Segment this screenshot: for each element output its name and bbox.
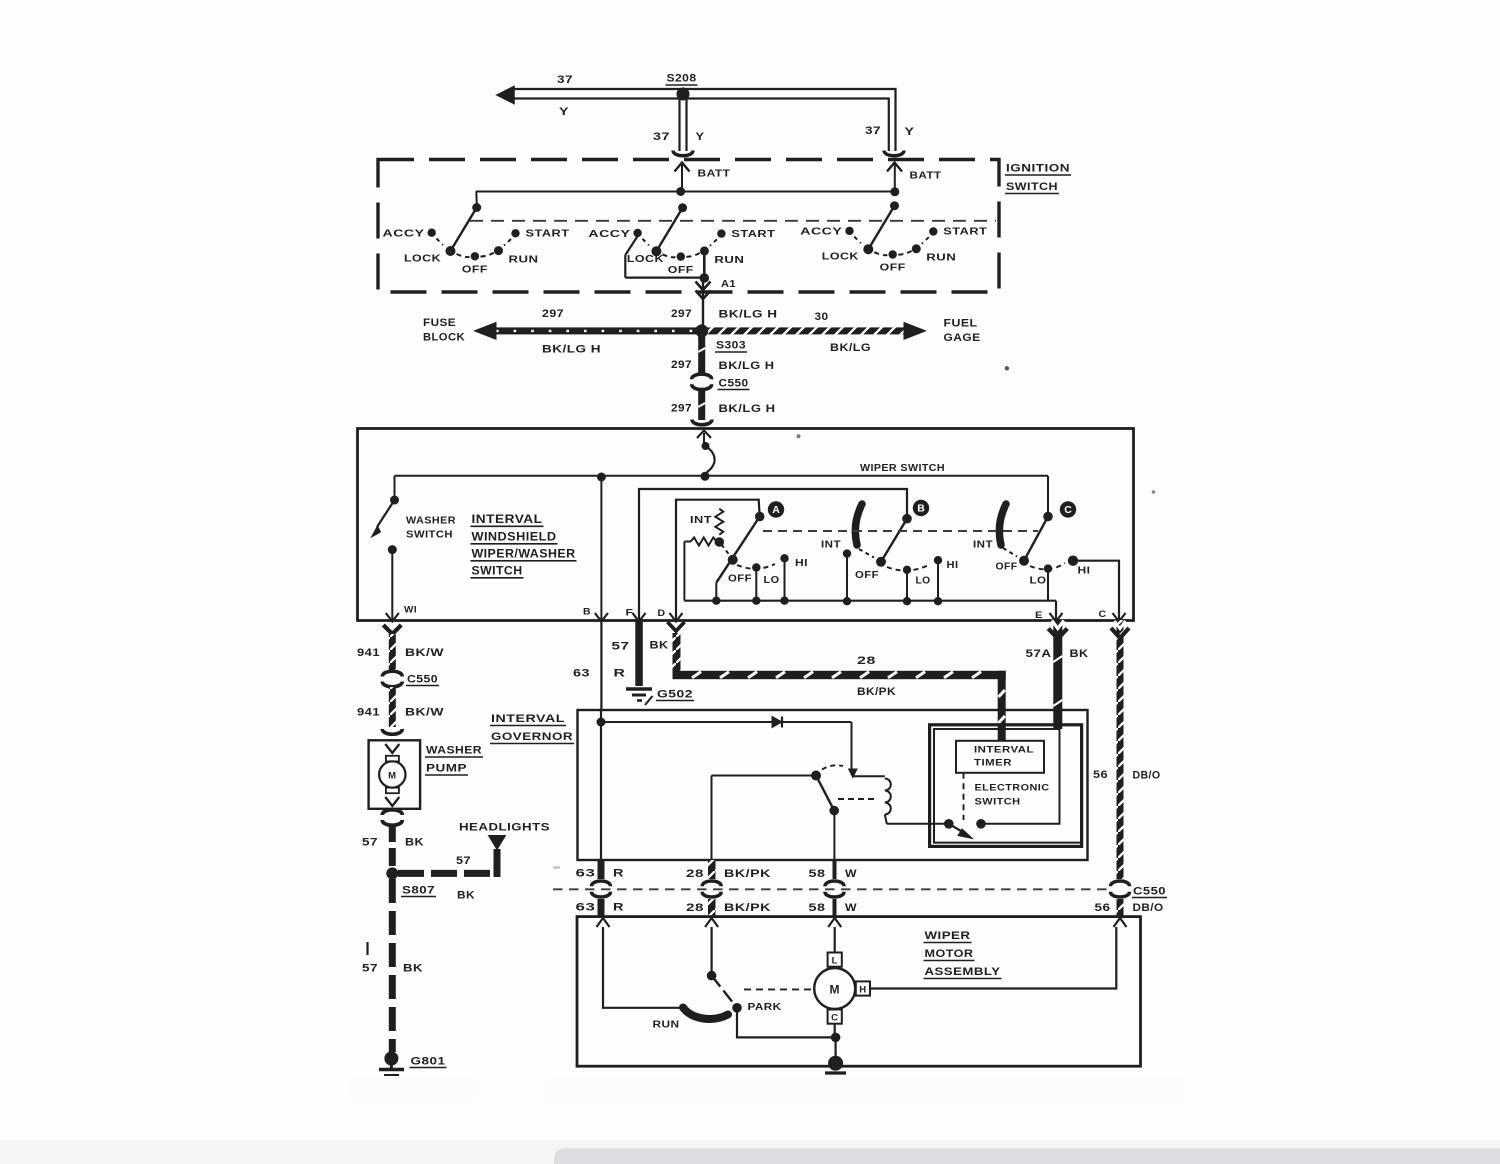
svg-text:RUN: RUN — [714, 254, 744, 266]
label terminal D — [658, 608, 666, 619]
terminal arrow out of washer pump — [385, 797, 399, 806]
contact HI (pole B) — [934, 556, 942, 601]
wire 58 to motor L — [834, 927, 836, 953]
label 28 (D run) — [857, 655, 876, 667]
label S807 — [401, 885, 436, 897]
harness dashed line C550 — [553, 888, 1108, 890]
svg-text:INT: INT — [690, 515, 712, 526]
label 297 (at S303) — [671, 308, 692, 320]
speck — [797, 434, 801, 438]
svg-text:941: 941 — [357, 647, 380, 659]
svg-text:S303: S303 — [716, 340, 746, 352]
svg-text:PUMP: PUMP — [426, 763, 467, 775]
label S303 — [715, 340, 747, 353]
svg-text:R: R — [614, 668, 626, 680]
svg-text:INT: INT — [821, 540, 841, 551]
svg-text:PARK: PARK — [748, 1001, 782, 1013]
svg-text:WIPER: WIPER — [925, 930, 971, 942]
wire 28 to park switch — [710, 927, 712, 976]
timer control dashed line — [963, 773, 965, 820]
resistor INT (pole A) — [684, 509, 723, 546]
wire D drop and pole-A feed — [676, 500, 760, 620]
svg-text:57: 57 — [456, 855, 471, 867]
label INTERVAL WINDSHIELD WIPER/WASHER SWITCH — [471, 514, 577, 578]
scrollbar thumb — [554, 1149, 1500, 1164]
contact HI (pole A) — [780, 554, 788, 601]
node bus entry — [701, 472, 710, 481]
svg-text:INTERVAL: INTERVAL — [472, 514, 543, 526]
svg-text:BK/LG H: BK/LG H — [719, 360, 775, 372]
svg-text:BK/LG: BK/LG — [830, 342, 871, 354]
park contact node — [732, 1003, 742, 1013]
svg-text:297: 297 — [671, 308, 692, 320]
svg-text:R: R — [613, 902, 624, 914]
wire 63 to RUN contact — [603, 927, 684, 1008]
svg-text:ACCY: ACCY — [588, 228, 630, 240]
headlights arrow — [489, 836, 506, 850]
ignition switch pole 2 (ACCY/LOCK/OFF/RUN/START) — [588, 203, 775, 277]
svg-text:S807: S807 — [402, 885, 435, 897]
svg-text:C550: C550 — [719, 378, 749, 390]
wiper motor M — [814, 968, 855, 1009]
wire stub 58 above C550 — [833, 860, 837, 879]
wire stub 63 above C550 — [598, 860, 605, 879]
connector C550 (941 wire) — [382, 671, 402, 687]
svg-text:HI: HI — [1078, 566, 1091, 577]
interval governor box — [578, 710, 1088, 860]
svg-text:BATT: BATT — [698, 168, 731, 180]
wire bottom bus (wiper poles) — [684, 601, 1056, 620]
wire INT leg to bottom bus (pole A) — [683, 542, 685, 601]
label LO (pole B) — [916, 576, 931, 587]
label LO (pole C) — [1030, 576, 1047, 587]
wire 63 R through governor — [600, 710, 602, 860]
svg-text:58: 58 — [809, 868, 826, 880]
svg-text:G502: G502 — [657, 689, 693, 701]
wire stub 63 below C550 — [598, 899, 605, 917]
connector chevron W1 — [383, 625, 401, 634]
ignition switch pole 3 (ACCY/LOCK/OFF/RUN/START) — [800, 201, 987, 274]
svg-text:INTERVAL: INTERVAL — [974, 745, 1034, 756]
label terminal C — [1099, 609, 1107, 620]
svg-text:63: 63 — [576, 902, 596, 914]
svg-text:56: 56 — [1093, 769, 1108, 781]
label 297 (below S303) — [671, 359, 692, 371]
wire C 56 DB/O (hatched) — [1111, 620, 1129, 879]
label 297 (fuse side) — [542, 308, 564, 320]
svg-text:30: 30 — [815, 311, 829, 323]
svg-text:WINDSHIELD: WINDSHIELD — [472, 532, 557, 544]
svg-text:HEADLIGHTS: HEADLIGHTS — [459, 822, 550, 834]
svg-text:RUN: RUN — [509, 254, 539, 266]
label Y (middle) — [696, 131, 705, 143]
node governor feed — [597, 718, 606, 727]
svg-text:FUEL: FUEL — [944, 318, 978, 330]
connector C550 row (28) — [702, 881, 721, 897]
label 30 — [815, 311, 829, 323]
label FUEL GAGE — [944, 318, 981, 345]
svg-text:DB/O: DB/O — [1133, 770, 1161, 782]
wire 37 Y double-line drop from S208 to middle BATT — [680, 94, 687, 151]
label BK/LG H (fuse side) — [542, 344, 601, 356]
svg-text:C550: C550 — [1133, 886, 1166, 898]
svg-text:F: F — [626, 608, 634, 619]
label INTERVAL GOVERNOR — [490, 713, 574, 744]
wire RUN pole2 to A1 — [700, 251, 710, 331]
label HI (pole C) — [1078, 566, 1091, 577]
svg-text:ASSEMBLY: ASSEMBLY — [925, 966, 1001, 978]
node LO-B on bus — [903, 597, 911, 605]
connector C550 row (56) — [1111, 881, 1130, 897]
svg-text:WASHER: WASHER — [426, 745, 482, 757]
wire governor top run — [601, 722, 852, 770]
svg-text:GOVERNOR: GOVERNOR — [491, 731, 573, 743]
label BATT (right) — [910, 170, 942, 182]
node LO-A on bus — [752, 597, 760, 605]
connector C550 (297 wire) — [692, 374, 712, 390]
wire stub 28 above C550 — [708, 860, 716, 879]
svg-text:WIPER SWITCH: WIPER SWITCH — [860, 462, 945, 474]
contact A node — [755, 512, 765, 522]
svg-text:BK: BK — [1070, 648, 1089, 660]
wire 57 BK (washer pump to S807) — [389, 824, 396, 869]
svg-text:BK/LG H: BK/LG H — [719, 309, 778, 321]
splice S807 — [386, 867, 398, 879]
svg-text:Y: Y — [559, 106, 569, 118]
svg-text:BK: BK — [405, 837, 424, 849]
switch arm pole B — [859, 519, 907, 567]
svg-text:BK/LG H: BK/LG H — [719, 403, 776, 415]
mech link park-motor dashed — [744, 988, 812, 990]
terminal D arrow — [670, 613, 683, 622]
svg-text:BATT: BATT — [910, 170, 942, 182]
svg-text:OFF: OFF — [855, 570, 879, 581]
dashed arc OFF-LO-HI (pole B) — [887, 565, 929, 571]
label OFF (pole B) — [855, 570, 879, 581]
svg-text:LO: LO — [916, 576, 931, 587]
wire B drop — [600, 476, 602, 620]
contact LO (pole C) — [1044, 564, 1052, 600]
svg-text:57A: 57A — [1026, 648, 1052, 660]
contact LO (pole B) — [903, 566, 911, 602]
svg-text:A1: A1 — [721, 278, 736, 290]
svg-text:B: B — [583, 607, 591, 618]
label A1 — [721, 278, 736, 290]
wire 297 below C550 — [698, 389, 705, 420]
label C550 (harness) — [1132, 886, 1167, 898]
terminal arrow 63 into motor box — [597, 918, 610, 927]
label WASHER SWITCH — [406, 516, 456, 541]
wire 57A into electronic switch — [1057, 714, 1059, 729]
svg-text:BK/W: BK/W — [405, 707, 444, 719]
svg-text:297: 297 — [671, 403, 692, 415]
label OFF (pole A) — [728, 574, 752, 585]
svg-text:OFF: OFF — [668, 264, 694, 276]
terminal arrow BATT right — [887, 163, 902, 192]
label row1 28 BK/PK — [686, 868, 771, 880]
terminal arrow into wiper switch box — [697, 431, 711, 439]
park switch pivot node — [707, 971, 717, 981]
label 941 BK/W (lower) — [357, 707, 444, 719]
svg-text:INTERVAL: INTERVAL — [491, 713, 565, 725]
svg-text:SWITCH: SWITCH — [975, 797, 1021, 808]
svg-text:LOCK: LOCK — [627, 253, 664, 265]
svg-text:M: M — [829, 983, 839, 997]
motor terminal H — [856, 981, 870, 995]
svg-text:57: 57 — [612, 641, 630, 653]
svg-text:941: 941 — [357, 707, 380, 719]
node bus-middle — [676, 187, 685, 196]
svg-text:C: C — [1099, 609, 1107, 620]
node arm-A on bus — [712, 597, 720, 605]
svg-text:WI: WI — [404, 605, 417, 616]
label BATT (middle) — [698, 168, 731, 180]
ignition switch dashed box — [378, 160, 999, 293]
terminal B arrow — [595, 613, 608, 622]
svg-text:BK: BK — [403, 963, 423, 975]
svg-text:BK/PK: BK/PK — [724, 902, 771, 914]
svg-text:BK: BK — [650, 640, 669, 652]
electronic switch wire loop — [934, 729, 1080, 843]
wire 28 leg to relay — [712, 776, 817, 861]
label terminal WI — [404, 605, 417, 616]
terminal A1 arrows — [696, 282, 711, 300]
svg-text:RUN: RUN — [653, 1019, 680, 1031]
wire stub 56 below C550 — [1117, 899, 1124, 917]
label 37 (right) — [865, 125, 881, 137]
terminal E arrow — [1050, 613, 1063, 622]
connector flare into washer pump — [382, 729, 402, 734]
ground (wiper motor) — [825, 1056, 846, 1083]
label C550 (941 wire) — [406, 674, 439, 686]
motor terminal L — [828, 953, 842, 967]
svg-text:E: E — [1035, 610, 1043, 621]
mechanical link dashed (wiper poles) — [763, 530, 1038, 532]
svg-text:297: 297 — [671, 359, 692, 371]
scrollbar area band — [0, 1140, 1500, 1164]
speck — [553, 866, 560, 868]
svg-text:SWITCH: SWITCH — [406, 530, 453, 541]
svg-text:G801: G801 — [411, 1056, 446, 1068]
wire E 57A BK (thick) — [1048, 620, 1067, 729]
run contact crescent — [683, 1008, 728, 1019]
ground G801 — [379, 1052, 404, 1081]
svg-text:SWITCH: SWITCH — [472, 566, 523, 578]
wire to headlights (thick dashed) — [398, 849, 497, 877]
splice S303 — [695, 324, 708, 337]
label row2 63 R — [576, 902, 625, 914]
connector flare into wiper switch box — [692, 420, 712, 425]
label row1 58 W — [809, 868, 858, 880]
label HI (pole A) — [795, 558, 808, 569]
svg-text:DB/O: DB/O — [1133, 902, 1164, 914]
contact HI (pole C) — [1068, 556, 1078, 566]
splice S208 label — [666, 73, 698, 86]
svg-text:OFF: OFF — [462, 264, 488, 276]
svg-text:ACCY: ACCY — [800, 226, 842, 238]
wiper switch box — [358, 429, 1134, 621]
switch arm pole C — [1003, 517, 1048, 566]
svg-text:ACCY: ACCY — [383, 228, 425, 240]
washer switch — [372, 476, 400, 620]
terminal arrow into washer pump — [385, 744, 399, 753]
svg-text:37: 37 — [557, 74, 573, 86]
node INT junction (pole A) — [715, 537, 725, 547]
svg-text:56: 56 — [1095, 902, 1111, 914]
wire hook from entry to bus — [702, 433, 715, 476]
svg-text:TIMER: TIMER — [974, 758, 1012, 769]
wire B 63 R to governor — [600, 620, 602, 710]
label row2 58 W — [809, 902, 858, 914]
node bus B-drop — [597, 473, 606, 482]
connector flare at middle BATT — [673, 151, 693, 156]
label BK/LG H (above wiper switch) — [719, 403, 776, 415]
svg-text:Y: Y — [905, 126, 915, 138]
washer pump box — [369, 740, 421, 809]
label terminal B — [583, 607, 591, 618]
svg-text:H: H — [859, 984, 866, 995]
svg-text:297: 297 — [542, 308, 564, 320]
node motor C junction — [831, 1033, 841, 1043]
svg-text:START: START — [943, 226, 987, 238]
svg-text:SWITCH: SWITCH — [1006, 181, 1058, 193]
label IGNITION SWITCH — [1005, 163, 1071, 194]
svg-text:WIPER/WASHER: WIPER/WASHER — [472, 549, 576, 561]
svg-text:HI: HI — [947, 560, 959, 571]
relay armature (governor) — [811, 765, 843, 815]
node HI-A on bus — [780, 597, 788, 605]
connector C550 row (58) — [825, 881, 844, 897]
label INTERVAL TIMER — [974, 745, 1034, 769]
terminal WI arrow — [386, 613, 399, 622]
electronic switch outer box — [930, 725, 1082, 847]
wire bus left drop — [475, 192, 478, 208]
splice S208 — [677, 88, 690, 101]
label terminal E — [1035, 610, 1043, 621]
svg-text:BK/LG H: BK/LG H — [542, 344, 601, 356]
svg-text:FUSE: FUSE — [423, 317, 456, 329]
svg-text:MOTOR: MOTOR — [925, 948, 974, 960]
label BK (E wire) — [1070, 648, 1089, 660]
speck — [1005, 366, 1009, 370]
label terminal F — [626, 608, 634, 619]
svg-text:C: C — [831, 1013, 838, 1024]
svg-text:28: 28 — [686, 902, 704, 914]
svg-text:A: A — [772, 504, 780, 516]
svg-text:63: 63 — [573, 668, 590, 680]
terminal arrow BATT middle — [675, 163, 690, 192]
label HI (pole B) — [947, 560, 959, 571]
wire 941 BK/W lower (hatched) — [389, 687, 396, 727]
label HEADLIGHTS — [459, 822, 550, 834]
sweep crescent (pole B) — [855, 504, 862, 545]
wire HI-C to terminal C — [1073, 561, 1119, 620]
svg-text:C: C — [1064, 504, 1072, 516]
label BK/LG (fuel side) — [830, 342, 871, 354]
switch arm pole A — [716, 517, 759, 601]
svg-text:57: 57 — [362, 963, 378, 975]
wire F 57 BK to ground (thick) — [635, 620, 643, 686]
svg-text:HI: HI — [795, 558, 808, 569]
relay coil (governor) — [853, 776, 949, 824]
label 57 (headlights) — [456, 855, 471, 867]
svg-text:BLOCK: BLOCK — [423, 332, 465, 344]
svg-text:C550: C550 — [407, 674, 438, 686]
label BK/PK (D run) — [857, 686, 896, 698]
label 297 (above wiper switch) — [671, 403, 692, 415]
wire 30 BK/LG to fuel gage (hatched band) — [702, 323, 926, 340]
svg-text:28: 28 — [857, 655, 876, 667]
mechanical link dashed line (ignition) — [470, 220, 996, 222]
sweep crescent (pole C) — [999, 504, 1006, 545]
svg-text:LOCK: LOCK — [404, 253, 441, 265]
label R (B wire) — [614, 668, 626, 680]
node HI-B on bus — [934, 597, 942, 605]
svg-text:Y: Y — [696, 131, 705, 143]
label WIPER MOTOR ASSEMBLY — [924, 930, 1002, 979]
label row2 28 BK/PK — [686, 902, 771, 914]
svg-text:57: 57 — [362, 837, 378, 849]
svg-text:63: 63 — [576, 868, 596, 880]
label BK (headlights) — [457, 890, 475, 902]
label BK/LG H (at S303) — [719, 309, 778, 321]
wire 37 Y double-line from arrow to S208 — [512, 89, 684, 99]
label WASHER PUMP — [425, 745, 483, 776]
ignition switch pole 1 (ACCY/LOCK/OFF/RUN/START) — [383, 203, 570, 276]
label PARK — [748, 1001, 782, 1013]
wire stub 28 below C550 — [708, 899, 716, 917]
motor terminal C — [828, 1010, 842, 1024]
svg-text:INT: INT — [973, 540, 993, 551]
connector below washer pump — [382, 810, 402, 826]
wire stub 58 below C550 — [833, 899, 837, 917]
badge A — [768, 501, 784, 517]
svg-text:START: START — [731, 228, 775, 240]
label 941 BK/W (upper) — [357, 647, 444, 659]
svg-text:37: 37 — [653, 131, 670, 143]
label LO (pole A) — [764, 575, 780, 586]
connector chevron D — [668, 622, 685, 631]
label INT (pole A) — [690, 515, 712, 526]
wire park contact to motor C — [737, 1008, 836, 1038]
wire to motor ground — [834, 1037, 836, 1060]
label G502 — [656, 689, 694, 701]
label 57 (F wire) — [612, 641, 630, 653]
svg-text:BK/PK: BK/PK — [724, 868, 771, 880]
svg-text:W: W — [845, 868, 857, 880]
wiper motor assembly box — [577, 917, 1141, 1067]
svg-text:LO: LO — [764, 575, 780, 586]
label BK (D wire) — [650, 640, 669, 652]
badge B — [913, 500, 929, 516]
svg-text:GAGE: GAGE — [944, 332, 981, 344]
contact B feed node — [902, 514, 912, 524]
label Y (right) — [905, 126, 915, 138]
label INT (pole C) — [973, 540, 993, 551]
wire 297 below S303 — [698, 334, 705, 375]
mech link armature-coil dashed — [838, 798, 877, 800]
label 57 BK (washer pump) — [362, 837, 424, 849]
wire motor H to 56 — [870, 927, 1116, 989]
svg-text:OFF: OFF — [728, 574, 752, 585]
label row1 63 R — [576, 868, 625, 880]
svg-text:W: W — [845, 902, 857, 914]
svg-text:RUN: RUN — [926, 252, 956, 264]
dashed arc OFF-LO-HI (pole C) — [1030, 563, 1065, 569]
connector C550 row (63) — [592, 881, 611, 897]
label C550 (297 wire) — [718, 378, 750, 390]
relay contact arrow (governor) — [849, 769, 857, 778]
